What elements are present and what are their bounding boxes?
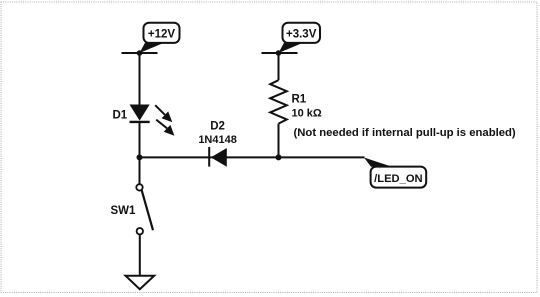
node junction dot +12V (137, 50, 143, 56)
switch SW1 (136, 184, 153, 234)
svg-text:+12V: +12V (148, 29, 176, 41)
wire: switch to ground (139, 234, 141, 275)
svg-text:+3.3V: +3.3V (286, 29, 317, 41)
svg-text:R1: R1 (292, 94, 307, 106)
LED D1 (130, 105, 175, 136)
wire: resistor bottom to node B (278, 124, 280, 158)
node junction dot +3.3V (276, 50, 282, 56)
node A junction dot (137, 154, 143, 160)
diode D2 (209, 147, 227, 167)
net flag /LED_ON (364, 158, 426, 188)
svg-text:D1: D1 (113, 109, 128, 121)
power bar +12V (122, 52, 158, 54)
wire: +12V bar down to LED anode (139, 53, 141, 105)
wire: horizontal node A to net flag (140, 156, 365, 158)
wire: +3.3V bar to resistor top (278, 53, 280, 80)
svg-text:10 kΩ: 10 kΩ (292, 108, 322, 120)
svg-text:D2: D2 (210, 121, 225, 133)
svg-text:/LED_ON: /LED_ON (374, 173, 423, 185)
resistor R1 (270, 80, 287, 123)
svg-text:1N4148: 1N4148 (198, 134, 237, 146)
power flag +12V (140, 23, 180, 53)
wire: LED cathode down to node A (139, 122, 141, 184)
power bar +3.3V (262, 52, 298, 54)
svg-text:SW1: SW1 (111, 205, 137, 217)
svg-text:(Not needed if internal pull-u: (Not needed if internal pull-up is enabl… (294, 127, 516, 139)
ground (126, 276, 155, 290)
power flag +3.3V (279, 23, 321, 53)
node B junction dot (276, 154, 282, 160)
